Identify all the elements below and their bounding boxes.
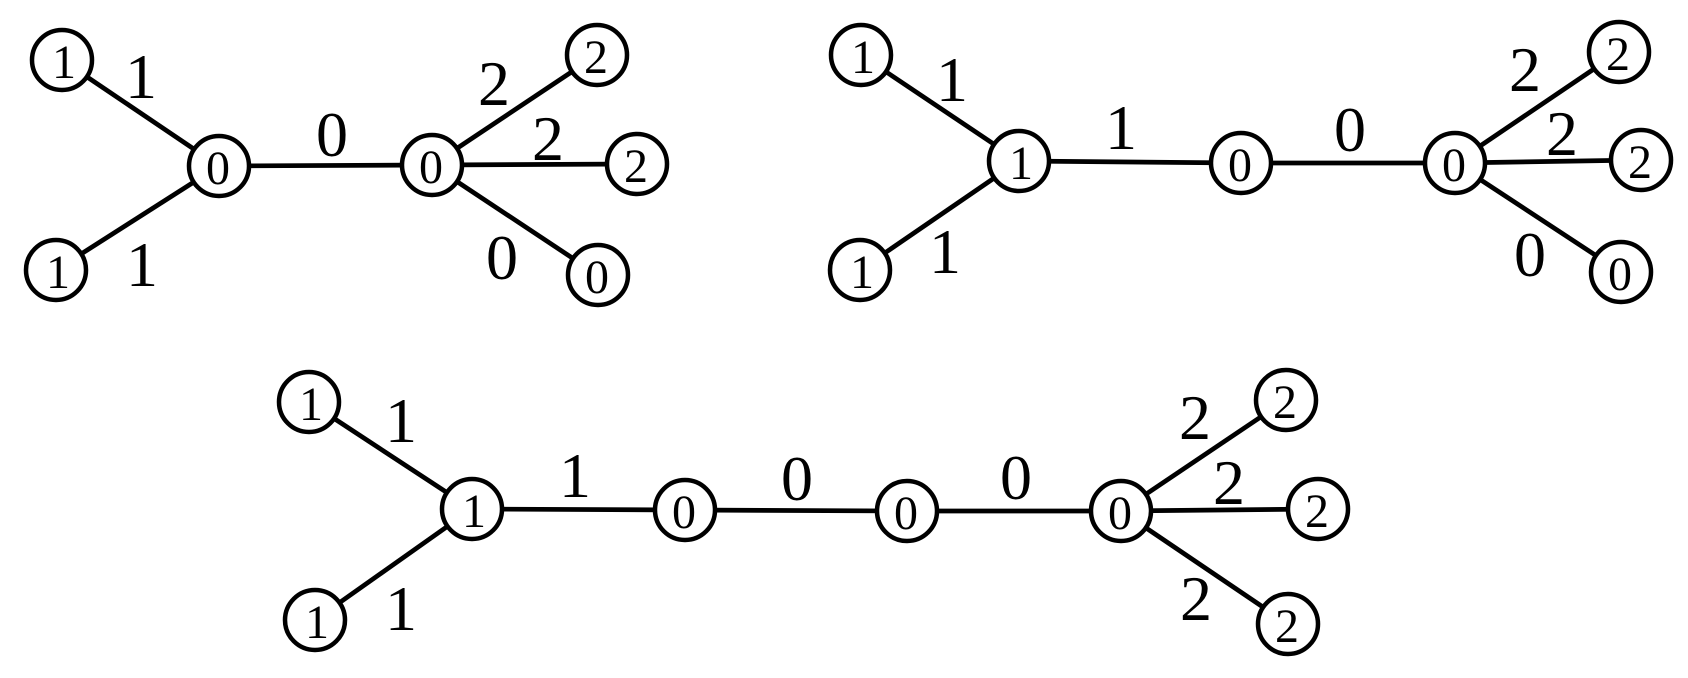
svg-text:2: 2 xyxy=(1180,563,1212,634)
svg-text:0: 0 xyxy=(316,99,348,170)
svg-text:0: 0 xyxy=(585,251,609,304)
svg-text:0: 0 xyxy=(1228,139,1252,192)
svg-text:1: 1 xyxy=(385,573,417,644)
svg-text:2: 2 xyxy=(478,48,510,119)
svg-text:2: 2 xyxy=(1275,600,1299,653)
svg-text:1: 1 xyxy=(1105,92,1137,163)
svg-text:0: 0 xyxy=(1108,487,1132,540)
svg-text:0: 0 xyxy=(781,443,813,514)
svg-text:2: 2 xyxy=(1509,34,1541,105)
svg-text:1: 1 xyxy=(1009,137,1033,190)
svg-text:2: 2 xyxy=(1546,98,1578,169)
svg-text:2: 2 xyxy=(1179,382,1211,453)
svg-text:1: 1 xyxy=(851,31,875,84)
svg-text:0: 0 xyxy=(206,142,230,195)
svg-text:2: 2 xyxy=(584,31,608,84)
svg-text:1: 1 xyxy=(462,485,486,538)
svg-text:1: 1 xyxy=(850,246,874,299)
svg-text:2: 2 xyxy=(1213,447,1245,518)
svg-text:2: 2 xyxy=(532,103,564,174)
svg-text:0: 0 xyxy=(1000,442,1032,513)
svg-text:1: 1 xyxy=(385,385,417,456)
svg-text:1: 1 xyxy=(936,44,968,115)
svg-text:2: 2 xyxy=(624,140,648,193)
svg-text:1: 1 xyxy=(126,229,158,300)
svg-text:0: 0 xyxy=(894,487,918,540)
svg-text:0: 0 xyxy=(672,486,696,539)
svg-text:0: 0 xyxy=(1442,139,1466,192)
svg-text:2: 2 xyxy=(1606,28,1630,81)
svg-text:0: 0 xyxy=(486,222,518,293)
svg-text:2: 2 xyxy=(1273,376,1297,429)
svg-text:1: 1 xyxy=(929,216,961,287)
svg-text:1: 1 xyxy=(305,596,329,649)
svg-text:0: 0 xyxy=(1334,94,1366,165)
svg-text:2: 2 xyxy=(1628,136,1652,189)
svg-text:1: 1 xyxy=(125,41,157,112)
svg-text:1: 1 xyxy=(46,246,70,299)
svg-text:0: 0 xyxy=(1608,248,1632,301)
svg-text:1: 1 xyxy=(299,378,323,431)
svg-text:0: 0 xyxy=(419,141,443,194)
svg-text:0: 0 xyxy=(1514,219,1546,290)
svg-text:1: 1 xyxy=(559,440,591,511)
svg-text:2: 2 xyxy=(1305,485,1329,538)
svg-text:1: 1 xyxy=(52,36,76,89)
